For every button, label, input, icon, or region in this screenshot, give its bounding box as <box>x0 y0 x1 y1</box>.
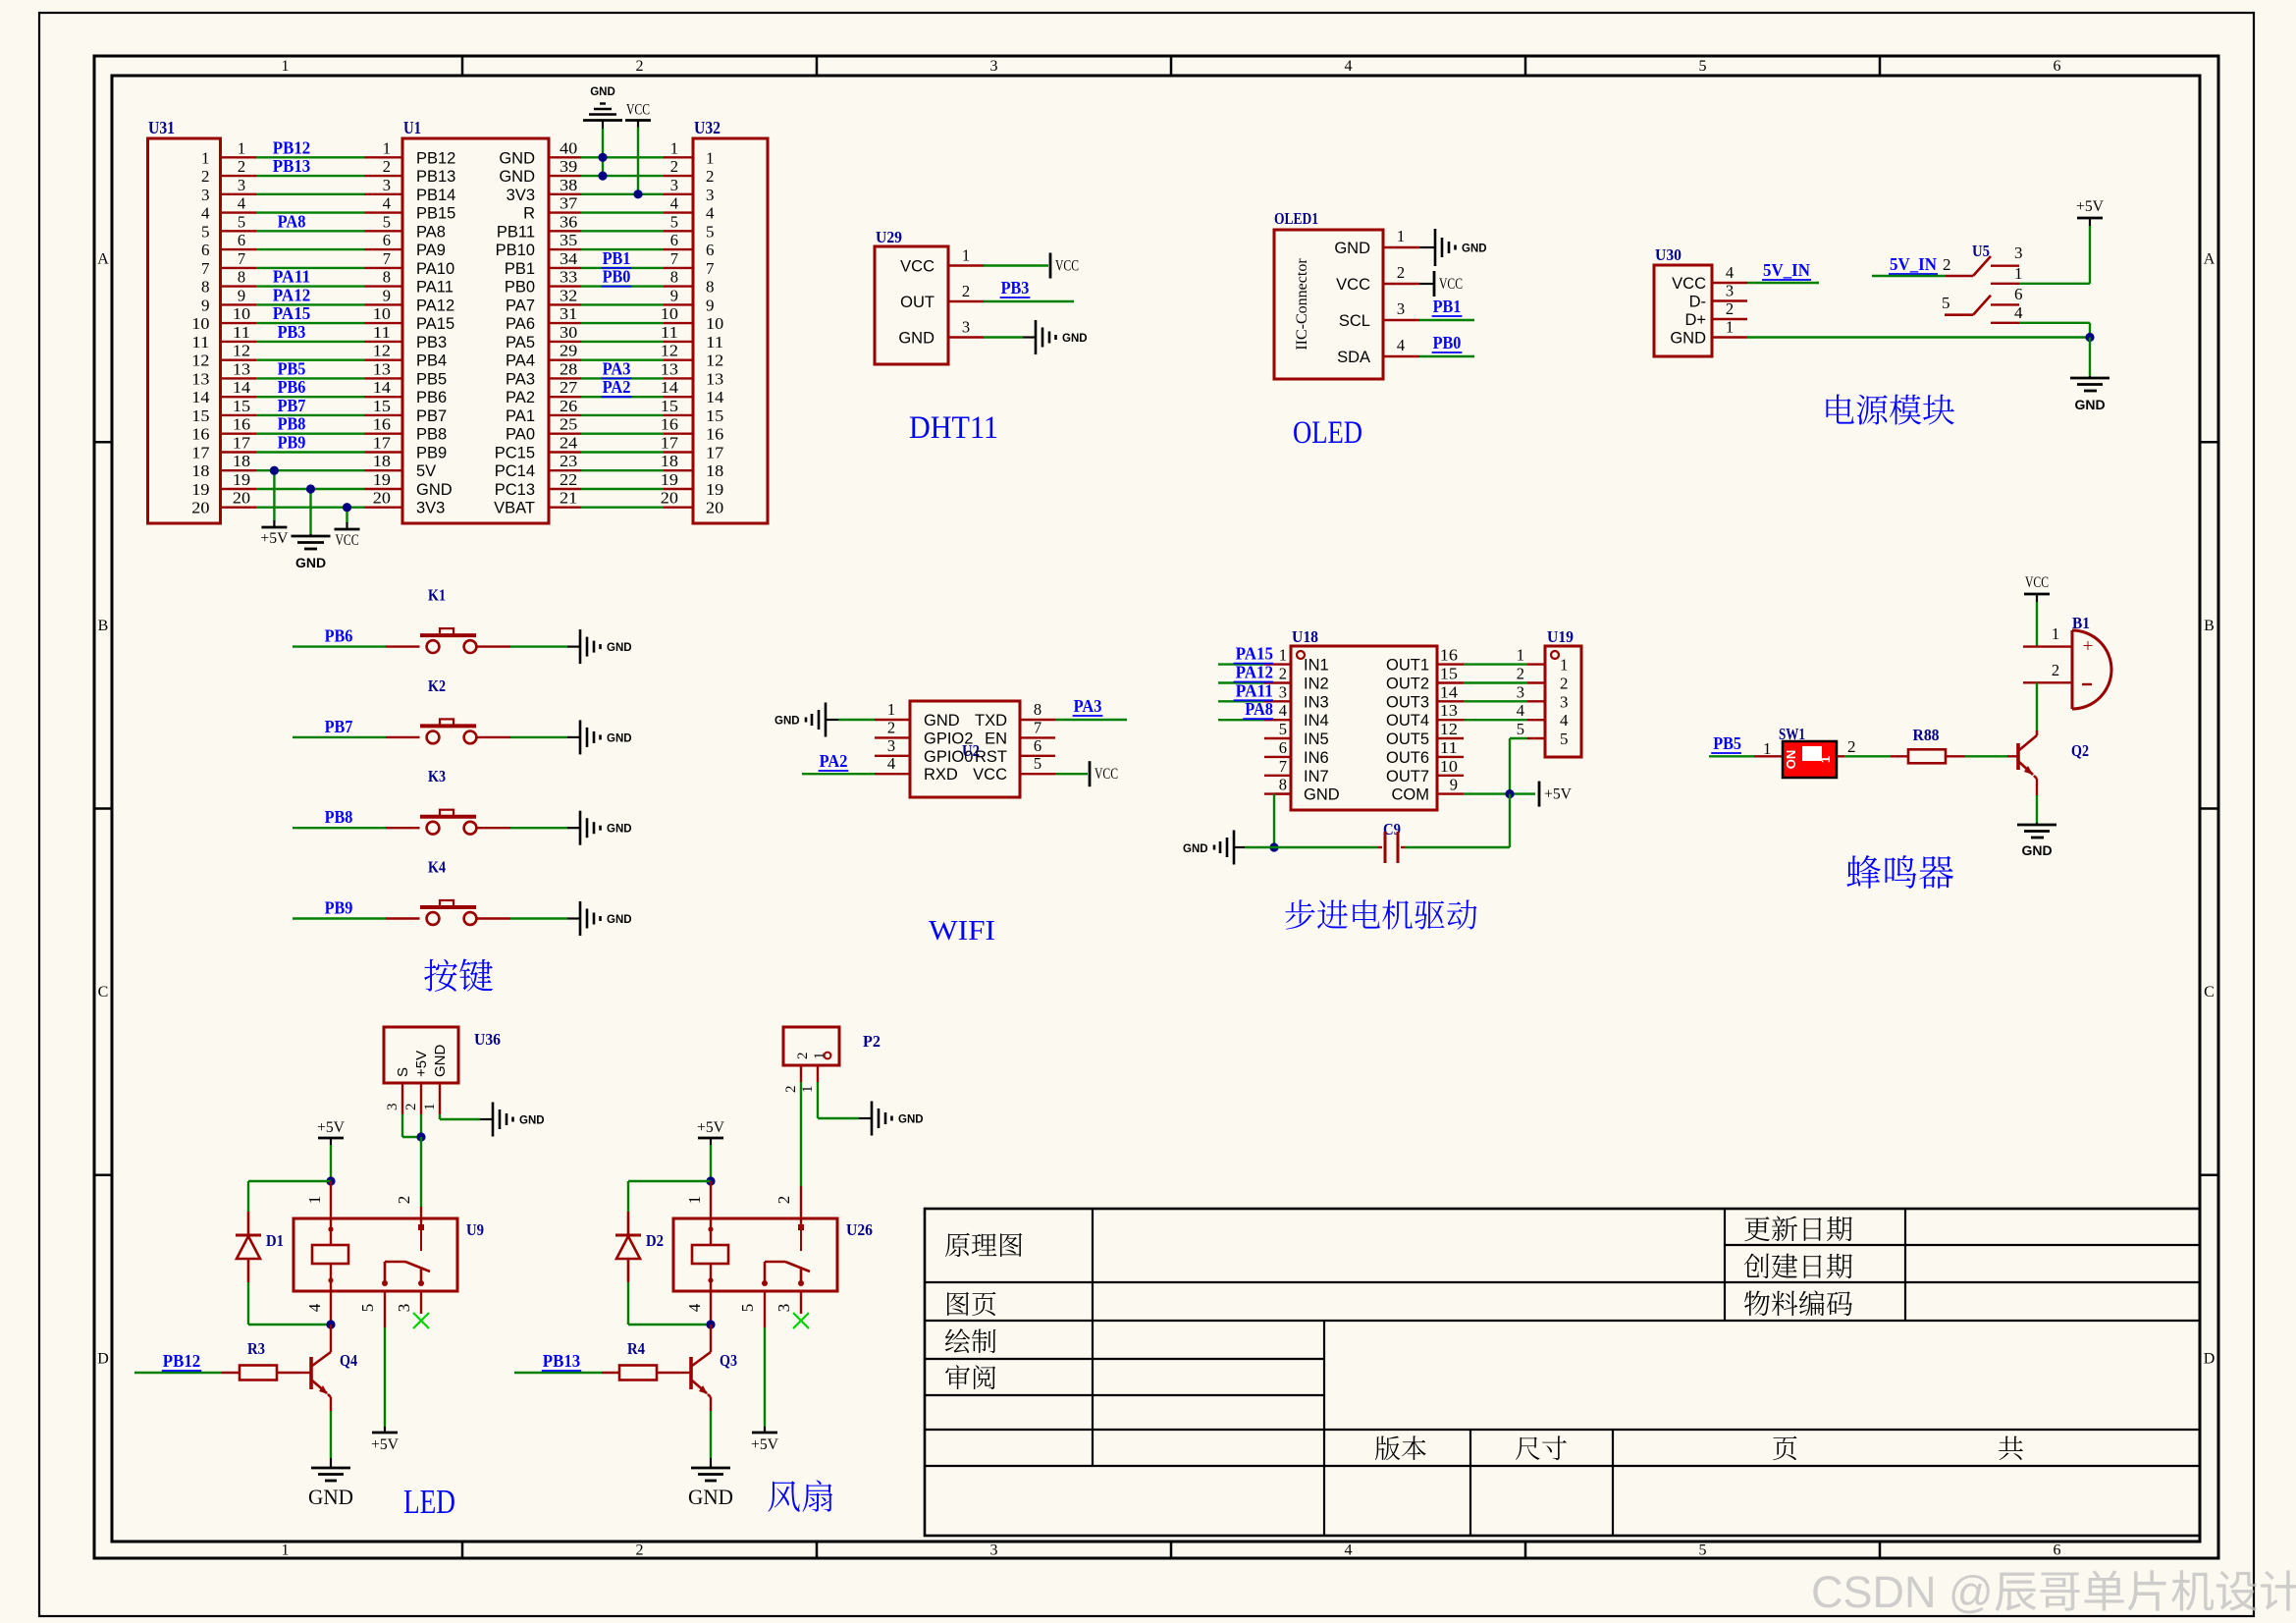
wires U31 to U1 with net labels <box>256 137 365 507</box>
wire U5 pin4 to ground rail <box>2019 323 2090 338</box>
svg-text:D1: D1 <box>266 1231 284 1250</box>
svg-text:1: 1 <box>238 138 245 157</box>
svg-text:17: 17 <box>191 444 210 462</box>
svg-text:5: 5 <box>1699 58 1707 75</box>
svg-text:PB1: PB1 <box>1433 297 1462 316</box>
U1 left pin stubs and numbers <box>365 138 403 507</box>
svg-text:1: 1 <box>2014 264 2023 283</box>
wire U2 pin5 to VCC <box>1055 761 1118 786</box>
svg-text:6: 6 <box>1279 738 1287 757</box>
svg-text:5: 5 <box>358 1304 377 1313</box>
U18 left pin stubs and numbers <box>1264 646 1291 794</box>
svg-text:2: 2 <box>383 157 391 176</box>
svg-text:12: 12 <box>233 342 250 360</box>
wire +5V junction to diode D1 <box>248 1181 331 1212</box>
wire Q4 emitter to ground <box>330 1411 332 1458</box>
svg-text:3: 3 <box>383 176 391 194</box>
svg-text:GND: GND <box>688 1485 733 1509</box>
svg-text:5: 5 <box>1517 720 1524 738</box>
svg-text:13: 13 <box>1440 701 1458 720</box>
svg-text:8: 8 <box>1034 700 1041 719</box>
svg-text:39: 39 <box>560 157 577 176</box>
svg-text:2: 2 <box>887 718 895 736</box>
svg-text:5: 5 <box>1560 730 1569 748</box>
svg-text:PA12: PA12 <box>416 297 454 314</box>
wire ground rail to C9 <box>1245 846 1378 848</box>
capacitor C9 <box>1378 820 1405 863</box>
svg-text:+5V: +5V <box>317 1119 346 1136</box>
svg-text:17: 17 <box>373 434 391 453</box>
power +5V above switch <box>2076 198 2105 226</box>
svg-text:PA12: PA12 <box>1236 663 1273 682</box>
svg-text:4: 4 <box>1345 1542 1353 1559</box>
svg-text:3: 3 <box>1279 682 1287 701</box>
ground at K2 <box>567 720 632 754</box>
svg-text:18: 18 <box>373 452 391 470</box>
svg-text:K3: K3 <box>428 767 446 785</box>
ground at OLED pin1 <box>1419 229 1487 266</box>
ground at K3 <box>567 811 632 845</box>
svg-text:1: 1 <box>282 58 290 75</box>
ground below Q4 <box>308 1458 353 1509</box>
svg-text:5: 5 <box>383 212 391 231</box>
svg-text:PA5: PA5 <box>506 334 535 352</box>
svg-text:13: 13 <box>233 359 250 378</box>
title block labels <box>945 1216 2023 1460</box>
wire PB12 to resistor R3 <box>134 1351 222 1373</box>
svg-text:13: 13 <box>373 359 391 378</box>
svg-text:5V_IN: 5V_IN <box>1890 254 1937 274</box>
svg-text:1: 1 <box>305 1196 324 1205</box>
power VCC symbol below <box>335 522 360 549</box>
svg-text:23: 23 <box>560 452 577 470</box>
svg-text:2: 2 <box>1847 737 1856 756</box>
svg-text:2: 2 <box>201 167 210 186</box>
svg-text:9: 9 <box>706 296 715 314</box>
svg-text:PB13: PB13 <box>416 168 455 186</box>
svg-text:GND: GND <box>2074 397 2105 412</box>
svg-text:3: 3 <box>1560 692 1569 711</box>
svg-text:GND: GND <box>774 716 800 728</box>
svg-text:VCC: VCC <box>1439 276 1463 293</box>
svg-text:9: 9 <box>1450 776 1458 794</box>
svg-text:PB1: PB1 <box>505 260 535 278</box>
svg-text:3: 3 <box>1397 299 1405 318</box>
svg-text:30: 30 <box>560 323 577 342</box>
svg-text:2: 2 <box>962 282 970 300</box>
svg-text:U1: U1 <box>403 118 421 137</box>
svg-text:+5V: +5V <box>2076 198 2105 215</box>
svg-text:PC14: PC14 <box>495 462 535 480</box>
svg-text:36: 36 <box>560 212 577 231</box>
svg-text:U5: U5 <box>1972 242 1990 260</box>
wire Q3 emitter to ground <box>710 1411 712 1458</box>
svg-text:8: 8 <box>201 278 210 297</box>
svg-text:PB9: PB9 <box>278 433 306 453</box>
svg-text:19: 19 <box>191 480 209 499</box>
pushbutton K3 <box>420 767 476 834</box>
svg-text:VCC: VCC <box>1055 258 1079 275</box>
wire U29 pin3 to GND <box>984 336 1023 338</box>
wire diode D2 to transistor node <box>628 1282 711 1325</box>
power +5V above U26 <box>697 1119 725 1145</box>
svg-text:GND: GND <box>1062 333 1088 345</box>
svg-text:2: 2 <box>1397 263 1405 282</box>
svg-text:OLED: OLED <box>1293 415 1362 451</box>
svg-text:VCC: VCC <box>973 766 1007 784</box>
svg-text:6: 6 <box>201 241 210 259</box>
svg-text:18: 18 <box>706 461 723 480</box>
wire K1 to ground <box>476 645 567 647</box>
svg-text:38: 38 <box>560 176 577 194</box>
svg-text:32: 32 <box>560 286 577 304</box>
svg-text:GND: GND <box>607 732 632 744</box>
svg-text:PA11: PA11 <box>416 279 454 297</box>
wire +5V to U5 pin1 <box>2019 226 2090 284</box>
svg-text:8: 8 <box>1279 776 1287 794</box>
svg-text:IN7: IN7 <box>1304 768 1329 785</box>
svg-text:VCC: VCC <box>626 102 650 119</box>
svg-text:11: 11 <box>233 323 250 342</box>
svg-text:PB9: PB9 <box>416 445 447 462</box>
svg-text:4: 4 <box>1345 58 1353 75</box>
svg-text:11: 11 <box>706 333 723 352</box>
wire SW1 pin2 to R88 <box>1837 737 1891 756</box>
svg-text:16: 16 <box>233 415 250 434</box>
svg-text:PA3: PA3 <box>1074 696 1102 716</box>
svg-text:GND: GND <box>416 481 453 499</box>
svg-text:WIFI: WIFI <box>929 916 995 947</box>
svg-text:PB8: PB8 <box>325 807 353 827</box>
svg-text:D2: D2 <box>646 1231 664 1250</box>
svg-text:3: 3 <box>395 1304 413 1313</box>
U9 pin3 no-connect <box>395 1291 429 1328</box>
svg-text:PA8: PA8 <box>278 211 306 231</box>
junction dot U36 signal <box>416 1132 425 1141</box>
svg-text:GND: GND <box>295 555 326 570</box>
svg-text:2: 2 <box>795 1053 811 1060</box>
wire U2 pin8 net PA3 <box>1055 696 1127 720</box>
U2 left pin stubs and numbers <box>875 700 910 774</box>
wire Q2 emitter to ground <box>2036 795 2038 823</box>
svg-text:PB0: PB0 <box>603 267 631 287</box>
svg-text:U9: U9 <box>466 1220 484 1239</box>
sensor header U29 <box>875 228 948 364</box>
relay U9 <box>294 1218 484 1291</box>
svg-text:1: 1 <box>1818 756 1833 763</box>
svg-text:GND: GND <box>924 712 960 730</box>
svg-text:+5V: +5V <box>697 1119 725 1136</box>
svg-text:PB11: PB11 <box>497 223 535 241</box>
svg-text:6: 6 <box>670 231 678 249</box>
power VCC port at OLED pin2 <box>1419 271 1463 297</box>
svg-text:PA2: PA2 <box>506 389 535 406</box>
OLED1 pin stubs and numbers <box>1383 227 1419 356</box>
svg-text:1: 1 <box>201 148 210 167</box>
svg-text:OUT3: OUT3 <box>1386 693 1429 711</box>
svg-text:S: S <box>395 1067 411 1077</box>
svg-text:5: 5 <box>738 1304 757 1313</box>
pushbutton K4 <box>420 858 476 925</box>
wire GND to pins 40,39 <box>602 129 604 176</box>
svg-text:17: 17 <box>706 444 724 462</box>
svg-text:PC13: PC13 <box>495 481 535 499</box>
svg-text:18: 18 <box>233 452 250 470</box>
svg-text:PB15: PB15 <box>416 205 455 223</box>
svg-text:U29: U29 <box>876 228 902 246</box>
svg-text:4: 4 <box>201 204 210 223</box>
svg-text:GND: GND <box>607 824 632 836</box>
wire VCC to buzzer pin1 <box>2036 602 2038 647</box>
svg-text:1: 1 <box>2052 624 2059 643</box>
svg-text:GND: GND <box>519 1115 545 1127</box>
svg-text:PA10: PA10 <box>416 260 454 278</box>
svg-text:GND: GND <box>1304 786 1340 804</box>
U26 pin3 no-connect <box>774 1291 809 1328</box>
svg-text:GND: GND <box>2021 842 2052 858</box>
U36 pin stubs and numbers <box>385 1083 440 1114</box>
svg-text:K4: K4 <box>428 858 446 877</box>
wire R88 to Q2 base <box>1965 755 2018 757</box>
svg-text:6: 6 <box>238 231 245 249</box>
junction dot stepper ground <box>1269 842 1278 851</box>
svg-text:6: 6 <box>2054 1542 2061 1559</box>
wire U30 VCC net 5V_IN <box>1747 260 1819 283</box>
power GND earth symbol below <box>292 534 331 570</box>
wire +5V to U9 pin1 <box>330 1145 332 1181</box>
svg-text:PA15: PA15 <box>1236 644 1274 664</box>
svg-text:P2: P2 <box>863 1032 881 1051</box>
svg-text:6: 6 <box>383 231 391 249</box>
connector U32 <box>661 118 768 523</box>
svg-text:35: 35 <box>560 231 577 249</box>
svg-text:IN3: IN3 <box>1304 693 1329 711</box>
svg-text:PB0: PB0 <box>505 279 535 297</box>
svg-text:PA1: PA1 <box>506 407 535 425</box>
svg-text:14: 14 <box>661 378 678 397</box>
svg-text:14: 14 <box>191 388 210 406</box>
wire U36 pins 3,2 join <box>402 1114 421 1137</box>
svg-text:4: 4 <box>1517 701 1524 720</box>
svg-text:PB6: PB6 <box>278 377 306 397</box>
svg-text:R88: R88 <box>1913 726 1940 744</box>
svg-text:20: 20 <box>706 499 723 517</box>
svg-text:D: D <box>97 1350 109 1367</box>
wire U18 COM to +5V <box>1464 792 1535 794</box>
section title fan <box>768 1480 832 1511</box>
svg-text:3: 3 <box>2014 243 2023 262</box>
svg-text:11: 11 <box>191 333 209 352</box>
svg-text:3: 3 <box>706 186 715 204</box>
wire ground to U2 pin1 <box>826 719 875 721</box>
wire U29 pin1 to VCC <box>984 264 1048 266</box>
svg-text:GND: GND <box>1334 240 1370 257</box>
svg-text:RST: RST <box>975 748 1007 766</box>
section title stepper driver <box>1285 899 1476 929</box>
svg-text:GND: GND <box>1183 843 1208 855</box>
svg-text:IN4: IN4 <box>1304 712 1329 730</box>
svg-text:PA15: PA15 <box>416 315 454 333</box>
svg-text:4: 4 <box>238 194 245 213</box>
svg-text:PA7: PA7 <box>506 297 535 314</box>
svg-text:10: 10 <box>191 314 209 333</box>
wire U36 to U9 pin2 <box>420 1137 422 1207</box>
svg-text:OUT6: OUT6 <box>1386 749 1429 767</box>
svg-text:PA3: PA3 <box>506 370 535 388</box>
svg-text:13: 13 <box>706 369 723 388</box>
wire PB6 to K1 <box>293 626 420 647</box>
wire K3 to ground <box>476 827 567 829</box>
svg-text:1: 1 <box>962 246 970 265</box>
svg-text:GND: GND <box>499 149 535 167</box>
svg-text:2: 2 <box>706 167 715 186</box>
U9 pin4 lead to transistor <box>305 1291 331 1325</box>
wire PB9 to K4 <box>293 898 420 919</box>
svg-text:10: 10 <box>233 304 250 323</box>
resistor R3 <box>222 1339 299 1380</box>
svg-text:19: 19 <box>373 470 391 489</box>
power +5V at stepper <box>1539 782 1573 807</box>
svg-text:2: 2 <box>774 1196 793 1205</box>
svg-text:U30: U30 <box>1655 245 1682 264</box>
svg-text:+5V: +5V <box>371 1436 400 1453</box>
svg-text:PB14: PB14 <box>416 187 455 204</box>
U2 right pin stubs and numbers <box>1020 700 1055 774</box>
svg-text:CSDN @: CSDN @ <box>1811 1567 1994 1617</box>
svg-text:PB5: PB5 <box>278 358 306 378</box>
svg-text:4: 4 <box>2014 303 2023 322</box>
wire P2 pin1 to ground <box>818 1082 859 1118</box>
svg-text:PB9: PB9 <box>325 898 353 918</box>
svg-text:7: 7 <box>1034 718 1041 736</box>
svg-text:28: 28 <box>560 359 577 378</box>
svg-text:4: 4 <box>1560 711 1569 730</box>
svg-text:11: 11 <box>373 323 391 342</box>
svg-text:PB8: PB8 <box>278 414 306 434</box>
junction dots GND net <box>598 153 607 162</box>
svg-text:PA15: PA15 <box>273 303 311 323</box>
svg-text:PB8: PB8 <box>416 426 447 444</box>
svg-text:9: 9 <box>201 296 210 314</box>
svg-text:18: 18 <box>191 461 209 480</box>
ground at stepper <box>1183 831 1245 865</box>
U26 pin5 to +5V <box>738 1291 779 1453</box>
svg-text:Q2: Q2 <box>2071 741 2089 760</box>
svg-text:PB13: PB13 <box>273 156 311 176</box>
svg-text:PB6: PB6 <box>416 389 447 406</box>
svg-text:+5V: +5V <box>751 1436 779 1453</box>
svg-text:3: 3 <box>385 1104 400 1111</box>
wire +5V junction to diode D2 <box>628 1181 711 1212</box>
svg-text:PB6: PB6 <box>325 626 353 646</box>
svg-text:SCL: SCL <box>1339 312 1370 330</box>
wire ground rail down <box>2089 338 2091 377</box>
U26 pin4 lead to transistor <box>685 1291 711 1325</box>
svg-text:19: 19 <box>661 470 678 489</box>
wire +5V drop from row 18 <box>273 470 275 521</box>
svg-text:5: 5 <box>1699 1542 1707 1559</box>
svg-text:1: 1 <box>800 1086 816 1094</box>
wire PB7 to K2 <box>293 717 420 737</box>
power VCC above buzzer <box>2024 574 2050 602</box>
svg-text:VCC: VCC <box>1672 275 1706 293</box>
wire VCC drop from row 20 <box>346 508 347 523</box>
svg-text:IN6: IN6 <box>1304 749 1329 767</box>
svg-text:PB3: PB3 <box>1001 278 1030 298</box>
USB connector U30 <box>1654 245 1712 356</box>
section title buzzer <box>1846 855 1953 889</box>
svg-text:20: 20 <box>191 499 209 517</box>
svg-text:16: 16 <box>706 425 723 444</box>
svg-text:IIC-Connector: IIC-Connector <box>1294 258 1310 351</box>
svg-text:GND: GND <box>308 1485 353 1509</box>
svg-text:VCC: VCC <box>1095 766 1118 783</box>
relay U26 <box>673 1218 873 1291</box>
svg-text:VCC: VCC <box>900 258 934 276</box>
svg-text:2: 2 <box>1943 255 1951 274</box>
resistor R4 <box>602 1339 679 1380</box>
resistor R88 <box>1891 726 1965 763</box>
ground below Q3 <box>688 1458 733 1509</box>
svg-text:IN1: IN1 <box>1304 657 1329 675</box>
svg-text:3: 3 <box>1517 682 1524 701</box>
svg-text:2: 2 <box>636 1542 644 1559</box>
wire U36 pin1 to ground <box>440 1114 480 1119</box>
svg-text:15: 15 <box>1440 665 1458 683</box>
svg-text:12: 12 <box>1440 720 1458 738</box>
svg-text:13: 13 <box>191 369 209 388</box>
junction dot VCC drop <box>343 503 351 512</box>
svg-text:17: 17 <box>661 434 678 453</box>
svg-text:2: 2 <box>238 157 245 176</box>
svg-text:14: 14 <box>1440 682 1458 701</box>
svg-text:EN: EN <box>985 730 1007 747</box>
svg-text:GND: GND <box>898 330 934 348</box>
svg-text:7: 7 <box>1279 757 1287 776</box>
power +5V above U9 <box>317 1119 346 1145</box>
svg-text:4: 4 <box>685 1303 704 1312</box>
power +5V symbol below <box>260 520 289 547</box>
svg-text:PB7: PB7 <box>325 717 353 736</box>
svg-text:1: 1 <box>887 700 895 719</box>
svg-text:PA6: PA6 <box>506 315 535 333</box>
wire U19 pin5 to +5V net <box>1510 738 1527 794</box>
junction dot ground rail <box>2085 333 2094 342</box>
svg-text:+5V: +5V <box>413 1051 430 1077</box>
svg-text:25: 25 <box>560 415 577 434</box>
svg-text:14: 14 <box>233 378 250 397</box>
svg-text:RXD: RXD <box>924 766 958 784</box>
svg-text:2: 2 <box>783 1086 799 1094</box>
svg-text:16: 16 <box>191 425 209 444</box>
svg-text:PB12: PB12 <box>416 149 455 167</box>
svg-text:8: 8 <box>383 268 391 287</box>
junction dot VCC net <box>633 189 642 198</box>
svg-text:R: R <box>523 205 535 223</box>
svg-text:SDA: SDA <box>1337 349 1370 366</box>
wire K4 to ground <box>476 917 567 919</box>
svg-text:1: 1 <box>1279 646 1287 665</box>
svg-text:3: 3 <box>990 58 998 75</box>
svg-text:OUT4: OUT4 <box>1386 712 1429 730</box>
svg-text:4: 4 <box>670 194 678 213</box>
svg-text:GND: GND <box>898 1114 924 1126</box>
svg-text:4: 4 <box>305 1303 324 1312</box>
svg-text:+5V: +5V <box>260 530 289 547</box>
svg-text:PB7: PB7 <box>278 396 306 415</box>
U26 pin1 lead <box>685 1181 711 1218</box>
wire U29 pin2 net PB3 <box>984 278 1074 301</box>
